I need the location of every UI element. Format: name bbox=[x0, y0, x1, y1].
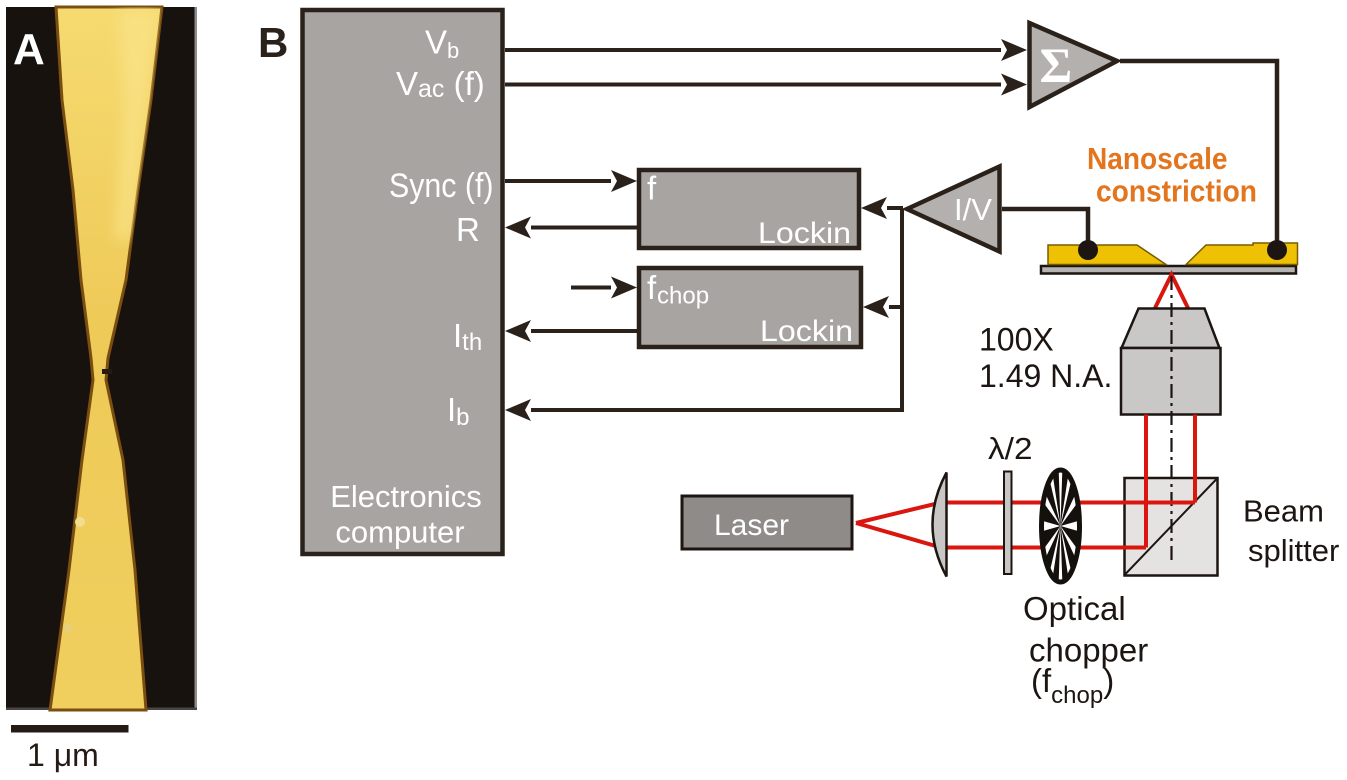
svg-text:λ/2: λ/2 bbox=[988, 431, 1033, 466]
laser box bbox=[682, 496, 852, 549]
scale bar bbox=[11, 725, 129, 733]
electronics computer box bbox=[303, 10, 503, 554]
beam splitter cube bbox=[1124, 478, 1218, 576]
half-wave plate bbox=[1004, 472, 1012, 575]
objective trapezoid bbox=[1122, 309, 1220, 349]
svg-text:Σ: Σ bbox=[1040, 37, 1073, 93]
optical chopper wheel bbox=[1042, 470, 1080, 582]
svg-text:1.49 N.A.: 1.49 N.A. bbox=[979, 358, 1112, 394]
wire branch to lockin 2 bbox=[863, 296, 902, 318]
wire fchop into lockin 2 bbox=[571, 277, 637, 299]
svg-text:f: f bbox=[647, 170, 657, 207]
svg-text:chop: chop bbox=[657, 283, 709, 310]
svg-text:A: A bbox=[13, 25, 45, 74]
panel A gold bowtie constriction bbox=[50, 7, 162, 710]
wire R from lockin 1 bbox=[505, 217, 637, 239]
svg-text:B: B bbox=[258, 19, 288, 66]
svg-text:computer: computer bbox=[335, 515, 464, 550]
I/V converter amp bbox=[907, 167, 1000, 252]
svg-text:Optical: Optical bbox=[1023, 590, 1126, 627]
lockin 1 box bbox=[639, 170, 859, 251]
label 100X 1.49 N.A. bbox=[979, 322, 1112, 395]
red beam upper path bbox=[856, 503, 1195, 524]
svg-text:(fchop): (fchop) bbox=[1031, 662, 1114, 709]
left gold pad bbox=[1048, 245, 1166, 265]
red beam left vertical bbox=[1144, 415, 1148, 548]
svg-text:R: R bbox=[456, 211, 480, 248]
svg-text:I/V: I/V bbox=[954, 192, 992, 227]
right gold pad bbox=[1186, 243, 1298, 265]
red beam lower path bbox=[856, 523, 1146, 548]
svg-text:Lockin: Lockin bbox=[758, 217, 851, 250]
wire Vac to summing amp bbox=[505, 74, 1027, 96]
svg-text:f: f bbox=[647, 269, 657, 306]
svg-text:1 μm: 1 μm bbox=[27, 737, 99, 773]
objective body bbox=[1121, 348, 1221, 415]
svg-text:Laser: Laser bbox=[714, 509, 789, 542]
label Optical chopper (fchop) bbox=[1023, 590, 1148, 709]
wire summing amp output to right pad bbox=[1120, 61, 1277, 250]
svg-text:Lockin: Lockin bbox=[760, 315, 853, 348]
panel A micrograph background bbox=[6, 7, 197, 710]
svg-text:constriction: constriction bbox=[1096, 174, 1257, 209]
optical axis dash-dot line bbox=[1170, 276, 1172, 560]
label Beam splitter bbox=[1243, 494, 1339, 569]
svg-text:splitter: splitter bbox=[1248, 533, 1339, 568]
substrate bar bbox=[1041, 266, 1296, 274]
collimating lens bbox=[933, 473, 947, 577]
lockin 2 box bbox=[639, 268, 861, 348]
svg-text:Electronics: Electronics bbox=[330, 479, 482, 514]
red beam right vertical bbox=[1193, 415, 1197, 503]
wire Ith from lockin 2 bbox=[505, 320, 637, 342]
left contact dot bbox=[1078, 240, 1098, 260]
wire I/V output to left pad bbox=[1002, 209, 1088, 250]
red beam V at sample bbox=[1155, 275, 1188, 309]
svg-text:Beam: Beam bbox=[1243, 494, 1324, 529]
summing amp bbox=[1030, 23, 1118, 107]
wire Vb to summing amp bbox=[505, 39, 1027, 61]
wire Sync (f) to lockin 1 bbox=[505, 170, 637, 192]
svg-text:Sync (f): Sync (f) bbox=[389, 167, 494, 205]
wire I/V to lockin 1 bbox=[861, 197, 903, 219]
right contact dot bbox=[1267, 240, 1287, 260]
wire trunk to Ib bbox=[505, 209, 903, 421]
svg-text:Nanoscale: Nanoscale bbox=[1087, 141, 1228, 176]
svg-text:100X: 100X bbox=[979, 322, 1054, 358]
label Nanoscale constriction bbox=[1087, 141, 1257, 209]
